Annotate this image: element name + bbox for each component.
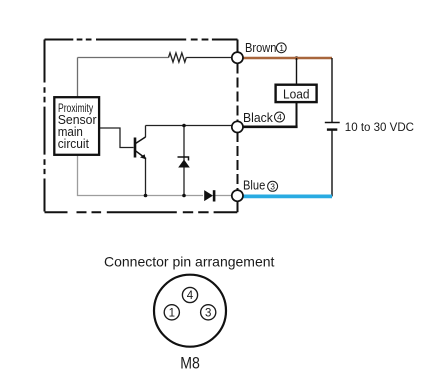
svg-text:3: 3 [205, 307, 211, 319]
svg-text:circuit: circuit [58, 136, 90, 151]
svg-text:1: 1 [169, 307, 175, 319]
svg-text:Connector pin arrangement: Connector pin arrangement [104, 254, 275, 270]
svg-text:Blue: Blue [243, 178, 265, 193]
svg-text:10 to 30 VDC: 10 to 30 VDC [345, 120, 415, 134]
svg-text:Brown: Brown [245, 40, 276, 55]
svg-text:4: 4 [277, 112, 282, 122]
svg-text:M8: M8 [180, 355, 200, 373]
svg-text:Black: Black [243, 110, 273, 125]
svg-text:4: 4 [187, 290, 194, 302]
svg-text:1: 1 [279, 43, 284, 53]
svg-text:3: 3 [270, 182, 275, 192]
svg-text:Load: Load [283, 86, 310, 101]
